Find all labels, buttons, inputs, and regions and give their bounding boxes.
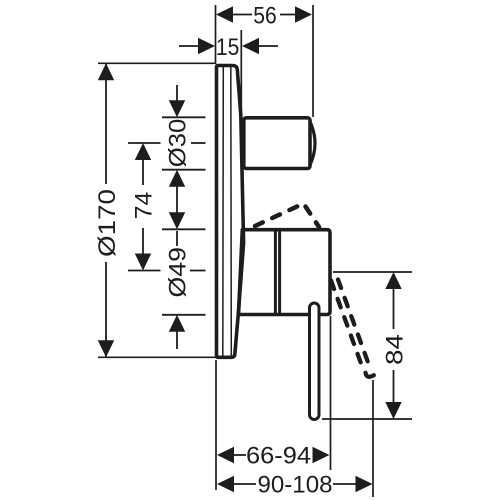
- svg-text:15: 15: [216, 34, 240, 61]
- tick, block top: [162, 116, 206, 118]
- label 74: [131, 192, 158, 220]
- arrow 84 bottom: [385, 402, 401, 419]
- dim line 56, right segment: [280, 14, 296, 16]
- connection block (diameter 30): [244, 118, 310, 169]
- svg-text:Ø49: Ø49: [165, 247, 192, 298]
- extension line, handle centre (84 top): [333, 271, 412, 273]
- dashed lever, swung position: rounded tip: [366, 373, 374, 377]
- arrow O49 bottom: [169, 315, 185, 332]
- dim line O170, upper segment: [105, 64, 107, 185]
- dashed lever, swung position: right edge: [338, 280, 370, 367]
- lever rod: [310, 303, 320, 420]
- arrow O30 top: [169, 100, 185, 117]
- extension line, plate top (O170): [98, 62, 216, 64]
- tick, block bottom: [162, 169, 206, 171]
- dim 15, right leader: [258, 45, 278, 47]
- svg-text:Ø170: Ø170: [94, 189, 121, 257]
- label 84: [381, 334, 408, 365]
- dashed lever, swung position: left edge: [331, 281, 363, 368]
- escutcheon plate fill (side view): [217, 66, 244, 358]
- arrow 74 top: [135, 143, 151, 160]
- dim line O170, lower segment: [105, 262, 107, 357]
- svg-text:74: 74: [131, 192, 158, 220]
- arrow 90-108 left: [217, 476, 234, 492]
- svg-text:Ø30: Ø30: [165, 119, 192, 168]
- tick, handle centreline left part: [128, 270, 161, 272]
- svg-text:84: 84: [381, 334, 408, 365]
- dim line 90-108, left segment: [233, 483, 256, 485]
- arrow O49 top: [169, 212, 185, 229]
- dashed lever, raised position: end edge: [306, 207, 320, 228]
- arrow 66-94 left: [217, 447, 234, 463]
- extension line, plate front (right of 15): [240, 30, 242, 112]
- tick, handle bottom: [162, 314, 206, 316]
- svg-text:66-94: 66-94: [246, 443, 311, 470]
- dim line O30, above arrow: [176, 85, 178, 112]
- dim line 84, lower segment: [393, 370, 395, 417]
- plate surface line 2: [230, 67, 233, 358]
- extension line, handle front down to 66-94: [330, 316, 332, 470]
- extension line, wall plane (left of 56 / 15): [215, 5, 217, 64]
- dim line 66-94, left segment: [233, 454, 246, 456]
- handle sleeve joint line 2: [278, 230, 281, 314]
- label O30: [165, 119, 192, 168]
- label O49: [165, 247, 192, 298]
- arrow 90-108 right: [356, 476, 373, 492]
- arrow 15 right (outside): [242, 38, 259, 54]
- handle sleeve joint line 1: [274, 230, 277, 314]
- tick, block centreline right part: [191, 142, 206, 144]
- dim line O49, below bottom arrow: [176, 318, 178, 349]
- extension line, lever tip (84 bottom): [322, 418, 412, 420]
- arrow 56 left: [216, 6, 233, 22]
- arrow O170 top: [98, 63, 114, 80]
- tick, block centreline left part: [128, 142, 161, 144]
- dim line 84, upper segment: [393, 274, 395, 329]
- svg-text:90-108: 90-108: [258, 472, 333, 499]
- extension line, block front face (right of 56): [312, 5, 314, 117]
- handle body (diameter 49): [239, 230, 331, 315]
- arrow 74 bottom: [135, 254, 151, 271]
- dim line O49, below top arrow: [176, 231, 178, 246]
- arrow 15 left (outside): [198, 38, 215, 54]
- arrow O30 bottom: [169, 170, 185, 187]
- arrow 56 right: [295, 6, 312, 22]
- tick, handle centreline right part: [190, 270, 206, 272]
- extension line, swung lever tip down to 90-108: [372, 380, 374, 497]
- dim line 56, left segment: [231, 14, 252, 16]
- label O170: [94, 189, 121, 257]
- arrow 84 top: [385, 272, 401, 289]
- connection block end-cap bulge: [309, 120, 315, 168]
- dim 15, left leader: [179, 45, 200, 47]
- arrow O170 bottom: [98, 340, 114, 357]
- tick, handle top: [162, 228, 206, 230]
- dim line 74, lower segment: [142, 228, 144, 254]
- plate surface line 1: [222, 66, 225, 357]
- dashed lever, raised position: upper edge: [255, 204, 304, 227]
- dim line 74, upper segment: [142, 159, 144, 185]
- arrow 66-94 right: [313, 447, 330, 463]
- dim line 90-108, right segment: [333, 483, 357, 485]
- extension line, wall plane down to bottom dims: [215, 360, 217, 490]
- extension line, plate bottom (O170): [98, 356, 216, 358]
- escutcheon plate outline: [217, 66, 244, 358]
- svg-text:56: 56: [253, 2, 277, 29]
- dim line between O30/O49 arrows: [176, 172, 178, 227]
